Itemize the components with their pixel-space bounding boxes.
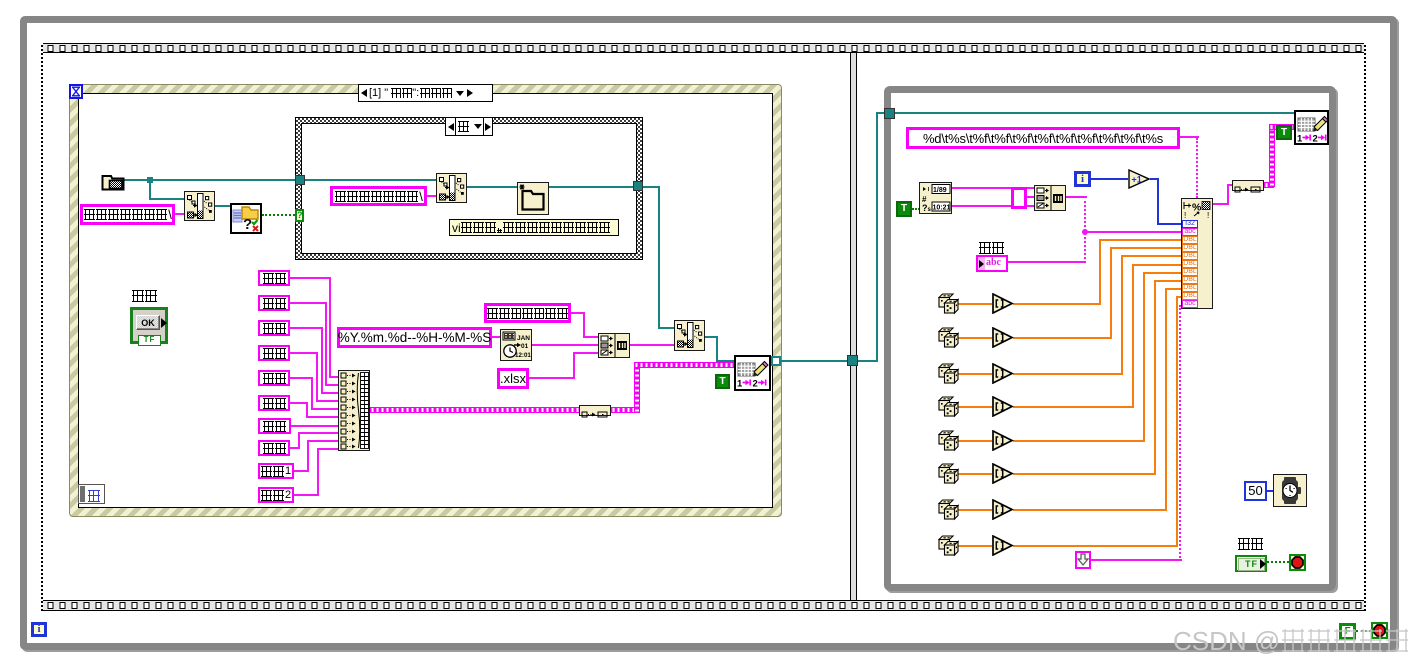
terminal DBL5 <box>1182 268 1198 276</box>
svg-text:1/89: 1/89 <box>933 187 947 194</box>
wire case right tunnel down to Build Path P3 <box>642 186 660 188</box>
wire dice4 chain <box>958 406 992 408</box>
wire path inside W2 to Write2 <box>894 112 1295 114</box>
wire dice2 chain <box>958 337 992 339</box>
random number dice 2 <box>938 327 959 354</box>
watermark CSDN <box>1173 626 1410 657</box>
boolean control terminal 停止 TF <box>1235 555 1267 572</box>
wire into Build Path P1 <box>149 198 184 200</box>
terminal DBL4 <box>1182 260 1198 268</box>
wire Build Path P2 to Create Folder <box>466 186 517 188</box>
event frame output tunnel <box>771 356 781 366</box>
string control label 时间 <box>258 295 290 311</box>
numeric label 推力 <box>258 395 290 411</box>
svg-text:01: 01 <box>521 343 529 350</box>
wire boolean T to Get Date/Time String <box>912 208 920 210</box>
terminal DBL6 <box>1182 276 1198 284</box>
terminal DBL8 <box>1182 292 1198 300</box>
svg-text:2: 2 <box>753 379 758 390</box>
case right tunnel (path) <box>633 181 643 191</box>
wire dice8 chain <box>958 545 992 547</box>
flat sequence S1 frame divider <box>850 53 857 600</box>
wire junction dot <box>1082 229 1088 235</box>
boolean constant F <box>1339 623 1356 640</box>
wire pink Format Date/Time to Concatenate <box>532 344 598 346</box>
case structure C1 selector label <box>445 117 493 136</box>
Build Path P2 <box>436 173 467 203</box>
label 时间 <box>978 240 1004 258</box>
wire F to loop condition W1 <box>1356 630 1371 632</box>
wire junction on path wire <box>147 177 153 183</box>
Wait (ms) node <box>1273 474 1307 507</box>
boolean control terminal 开始 (OK button) <box>131 289 157 304</box>
end-of-line constant <box>1075 551 1091 569</box>
loop condition terminal (W2) <box>1289 554 1306 571</box>
numeric constant 50 <box>1244 481 1267 501</box>
wire Build Path P1 out to Check-Exists <box>215 205 230 207</box>
flat sequence S1 top film border <box>41 43 1366 53</box>
wire Create Folder to case right tunnel <box>549 186 633 188</box>
while loop W2 (inner right) <box>884 86 1336 591</box>
wire label 频率2 to build array <box>293 494 319 496</box>
build array (2D) reshape node <box>579 405 611 416</box>
concatenate strings node CS2 <box>1034 185 1066 211</box>
event data node 源 <box>78 484 105 504</box>
iteration terminal i (W2) <box>1074 171 1091 187</box>
terminal DBL2 <box>1182 244 1198 252</box>
wire space constant out <box>1027 196 1034 198</box>
wire label 推力 to build array <box>289 402 308 404</box>
terminal DBL7 <box>1182 284 1198 292</box>
flat sequence S1 bottom film border <box>41 600 1366 611</box>
svg-text:10:21: 10:21 <box>933 205 951 212</box>
to-array triangle 5 <box>992 430 1014 456</box>
label 停止 <box>1237 536 1263 554</box>
boolean constant T (transpose W2) <box>1276 125 1292 140</box>
numeric label 频率1 <box>258 463 294 479</box>
numeric label 电流 <box>258 418 291 434</box>
wire label 转速 to build array <box>289 352 318 354</box>
terminal abc (eol) <box>1182 300 1198 308</box>
svg-text:!: ! <box>1184 211 1186 219</box>
wire label 油门 to build array <box>289 327 323 329</box>
string path label 单桨叶测试采集\ <box>80 204 175 225</box>
wire label 电流 to build array <box>290 425 338 427</box>
increment +1 node <box>1128 169 1151 189</box>
Build Path P3 <box>674 320 705 351</box>
space string constant <box>1011 187 1027 209</box>
numeric label 扭矩 <box>258 370 290 386</box>
numeric label 频率2 <box>258 487 294 503</box>
path constant: VI folder <box>101 172 125 191</box>
to-array triangle 6 <box>992 463 1014 489</box>
Format Into String node <box>1181 198 1213 309</box>
free label comment vi在哪里，创建的文件夹就在哪 <box>449 219 619 236</box>
svg-text:12:01: 12:01 <box>515 352 531 359</box>
Write Delimited Spreadsheet node W2 <box>1294 110 1329 145</box>
to-array triangle 7 <box>992 499 1014 525</box>
wire string-array build array to reshape node <box>370 407 579 413</box>
extension label .xlsx <box>497 368 529 389</box>
random number dice 1 <box>938 293 959 320</box>
wire label 扭矩 to build array <box>289 377 313 379</box>
in-case string label 单桨叶测试采集\ <box>330 186 427 206</box>
Write Delimited Spreadsheet node W1 <box>734 355 771 391</box>
wire label 时间 to build array <box>289 302 327 304</box>
boolean constant T (want seconds) <box>896 201 912 217</box>
wire branch down to Build Path P1 <box>149 179 151 199</box>
wire 2D-array reshape to Write1 <box>611 407 639 413</box>
wire pink Concatenate out to Build Path P3 <box>630 344 674 346</box>
to-array triangle 1 <box>992 293 1014 319</box>
wire 2D array to Write2 <box>1264 182 1274 188</box>
to-array triangle 3 <box>992 363 1014 389</box>
event structure E1 timeout terminal (hourglass) <box>69 84 83 99</box>
svg-text:JAN: JAN <box>517 335 530 342</box>
wire pink %Y label to Format Date/Time <box>491 336 500 338</box>
wire Write1 path out through event tunnel <box>770 360 847 362</box>
numeric label 油门 <box>258 320 290 336</box>
Build Path P1 <box>184 191 215 221</box>
wire label 序号 to build array <box>289 277 331 279</box>
random number dice 6 <box>938 463 959 490</box>
string indicator 时间 <box>976 255 1008 272</box>
numeric label 电压 <box>258 440 290 456</box>
wire path from divider tunnel to while loop W2 <box>858 360 878 362</box>
case left tunnel (path) <box>295 175 305 185</box>
terminal I32 <box>1182 220 1198 228</box>
event structure E1 border <box>69 84 782 517</box>
terminal DBL1 <box>1182 236 1198 244</box>
wire pink name label to Concatenate input1 <box>570 312 585 314</box>
file name label 单桨叶测试采集 <box>484 303 571 323</box>
svg-text:1: 1 <box>1297 134 1303 145</box>
wire label 频率1 to build array <box>293 470 309 472</box>
string control label 序号 <box>258 270 290 286</box>
flat sequence S1 left border <box>41 43 43 611</box>
event structure E1 interior <box>78 93 773 508</box>
wire TF to loop condition <box>1267 561 1289 563</box>
Get Date/Time String node <box>919 182 952 214</box>
while loop W2 input tunnel <box>884 108 895 119</box>
terminal DBL3 <box>1182 252 1198 260</box>
wire pink label1 to Build Path P1 <box>174 213 184 215</box>
wire dice7 chain <box>958 509 992 511</box>
wire path inside case to Build Path P2 <box>304 179 436 181</box>
wire Build Path P3 to Write node <box>705 336 718 338</box>
sequence divider tunnel <box>847 355 858 366</box>
wire pink .xlsx to Concatenate input3 <box>528 377 575 379</box>
wire boolean Check-Exists to case selector <box>262 214 295 216</box>
wire path: VI folder to case tunnel <box>124 179 295 181</box>
svg-text:!: ! <box>1207 211 1209 219</box>
svg-text:?: ? <box>243 216 252 232</box>
boolean constant T (append) <box>715 374 730 389</box>
svg-text:?s: ?s <box>922 203 932 213</box>
concatenate strings node CS1 <box>598 333 630 358</box>
wire dice5 chain <box>958 440 992 442</box>
loop condition terminal (W1) <box>1371 622 1388 639</box>
random number dice 8 <box>938 535 959 562</box>
svg-text:+1: +1 <box>1132 175 1142 185</box>
format string label %Y.%m.%d--%H-%M-%S <box>337 327 492 348</box>
wire concat2 out to junction and abc input <box>1066 196 1087 198</box>
flat sequence S1 right border <box>1364 43 1366 611</box>
svg-text:1: 1 <box>737 379 743 390</box>
to-array triangle 2 <box>992 327 1014 353</box>
random number dice 3 <box>938 363 959 390</box>
wire pink label3 to Build Path P2 <box>427 195 436 197</box>
wire dice6 chain <box>958 473 992 475</box>
Format Date/Time String node <box>500 329 532 361</box>
Create Folder node <box>517 182 549 215</box>
wire EOL constant to abc input <box>1090 559 1182 561</box>
iteration terminal i (outer W1) <box>31 622 47 637</box>
numeric label 转速 <box>258 345 290 361</box>
wire format into string out <box>1213 203 1229 205</box>
svg-text:2: 2 <box>1313 134 1318 145</box>
build array node (10 inputs) <box>338 370 370 451</box>
format string constant %d\t... <box>906 127 1180 149</box>
wire time string out <box>952 205 1034 207</box>
wire iteration i to +1 <box>1090 178 1128 180</box>
case structure C1 interior <box>301 123 637 254</box>
to-array triangle 4 <box>992 396 1014 422</box>
case selector tunnel [?] <box>295 209 304 222</box>
random number dice 7 <box>938 499 959 526</box>
random number dice 5 <box>938 430 959 457</box>
wire +1 out to I32 input <box>1150 178 1159 180</box>
wire date string out <box>952 187 1034 189</box>
wire label 电压 to build array <box>289 447 300 449</box>
event structure E1 selector label <box>358 84 493 102</box>
build array (2D) reshape node R2 <box>1232 180 1264 191</box>
Check if File or Folder Exists node <box>230 203 262 234</box>
wire dice1 chain <box>958 303 992 305</box>
wire 50 to Wait <box>1266 490 1275 492</box>
terminal abc (time) <box>1182 228 1198 236</box>
random number dice 4 <box>938 396 959 423</box>
wire format-string label to Format Into String <box>1179 136 1199 138</box>
wire dice3 chain <box>958 373 992 375</box>
case structure C1 border <box>295 117 643 260</box>
to-array triangle 8 <box>992 535 1014 561</box>
svg-text:%: % <box>1192 202 1202 214</box>
